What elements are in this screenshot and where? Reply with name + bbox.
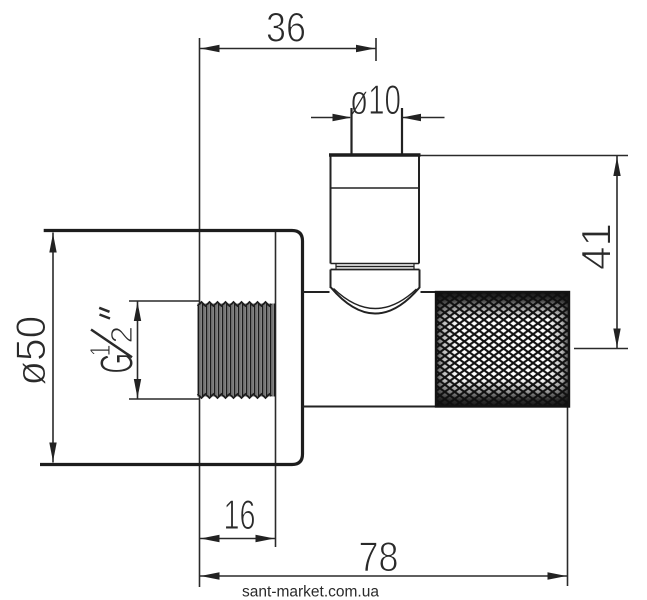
- svg-text:16: 16: [224, 491, 256, 538]
- svg-text:sant-market.com.ua: sant-market.com.ua: [242, 584, 379, 600]
- dimension ø50: [7, 233, 57, 463]
- svg-text:ø10: ø10: [350, 76, 401, 123]
- washer ring: [336, 264, 414, 269]
- thread G1/2 (hatched): [198, 302, 276, 398]
- knurled handle: [435, 291, 570, 408]
- svg-text:ø50: ø50: [7, 316, 54, 386]
- valve body tube: [303, 292, 571, 407]
- svg-text:41: 41: [573, 223, 620, 270]
- svg-text:2: 2: [104, 326, 139, 344]
- outlet stem pipe: [350, 108, 352, 154]
- dimension G1/2": [85, 301, 199, 399]
- wire: thread end line / 16-dim right extension: [275, 231, 277, 547]
- dimension 41: [420, 156, 628, 349]
- dimension 78: [200, 407, 568, 586]
- dimension ø10: [311, 76, 445, 123]
- dimension 36: [200, 4, 377, 62]
- dimension 16: [200, 491, 276, 542]
- flange (wall rosette) outline: [40, 231, 303, 465]
- svg-text:1: 1: [85, 345, 117, 357]
- compression nut: [329, 155, 421, 264]
- wire: shared extension line (36/16/78 dims, thread root line): [199, 38, 201, 587]
- bonnet band and saddle: [331, 270, 420, 314]
- svg-text:36: 36: [266, 4, 306, 51]
- svg-text:78: 78: [359, 533, 399, 580]
